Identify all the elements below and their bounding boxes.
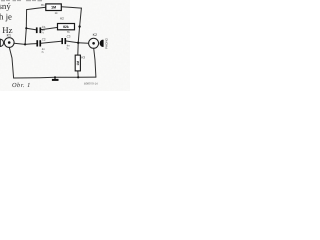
svg-text:B08070-14: B08070-14 <box>84 81 98 85</box>
svg-text:h je: h je <box>0 12 12 22</box>
svg-text:R1: R1 <box>41 3 45 7</box>
svg-text:sný: sný <box>0 1 11 11</box>
svg-text:82k: 82k <box>63 25 69 29</box>
svg-text:R3: R3 <box>81 56 85 60</box>
svg-text:K1: K1 <box>7 33 11 37</box>
svg-text:C2: C2 <box>42 37 46 41</box>
svg-text:PHONO: PHONO <box>105 37 109 49</box>
svg-text:1M: 1M <box>76 61 80 66</box>
svg-text:7k: 7k <box>67 30 71 34</box>
svg-text:1M: 1M <box>51 6 56 10</box>
svg-text:K2: K2 <box>93 33 97 37</box>
svg-text:Obr. 1: Obr. 1 <box>12 82 31 89</box>
svg-text:C3: C3 <box>67 35 71 39</box>
svg-text:R2: R2 <box>60 17 64 21</box>
